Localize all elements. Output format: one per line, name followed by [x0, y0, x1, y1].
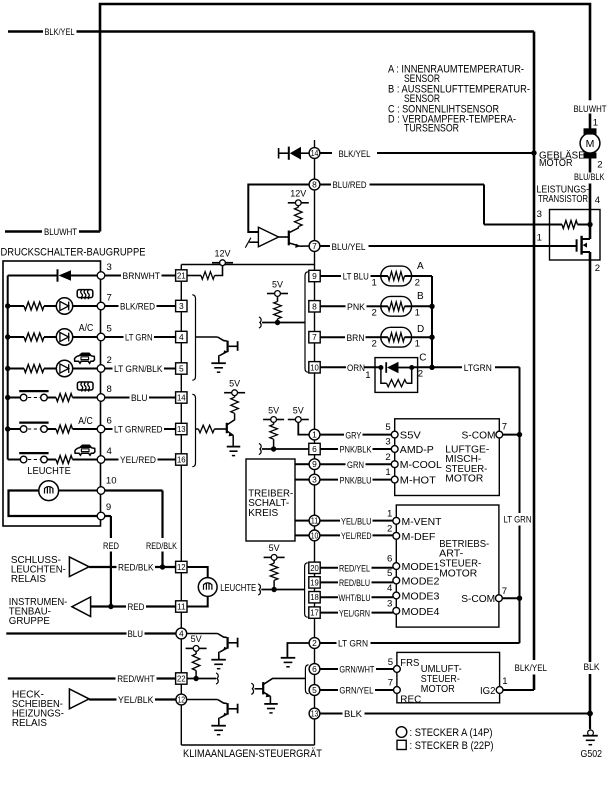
resistor (power transistor base) [562, 221, 578, 229]
svg-text:11: 11 [311, 516, 319, 526]
wire PNK (pin B8) [320, 305, 380, 307]
wire GRN/YEL (pin A5) [320, 689, 394, 691]
svg-text:YEL/BLK: YEL/BLK [118, 695, 154, 705]
label PNK [347, 302, 366, 312]
Luftgemisch-Steuermotor box [395, 419, 500, 496]
supply 12V (pin 21) [212, 249, 233, 266]
wire GRY (pin A1) [320, 434, 391, 436]
svg-text:13: 13 [177, 424, 186, 434]
label RED/WHT [117, 674, 155, 684]
svg-text:BLU: BLU [128, 629, 144, 639]
label KLIMAANLAGEN-STEUERGRÄT [183, 748, 322, 760]
wire Treiber to pin A3 [295, 479, 309, 481]
wire BLU (pin A4) [6, 632, 175, 634]
svg-text:RED/WHT: RED/WHT [117, 674, 155, 684]
label pin 4 (transistor) [595, 195, 601, 206]
bracket B3-B5 [192, 295, 195, 380]
svg-text:4: 4 [179, 629, 184, 639]
svg-text:3: 3 [179, 301, 184, 311]
wire RED/BLK (pin B12) [89, 566, 175, 568]
labels sensor C [365, 353, 426, 381]
wire BRNWHT [105, 275, 176, 277]
switch (row 6) [8, 423, 49, 433]
pin A3 [309, 474, 320, 485]
svg-text:5V: 5V [191, 634, 203, 645]
junctions sensor C terminals [378, 365, 414, 370]
sensor C diode [386, 362, 412, 373]
pin 7 S-COM (Betriebsart) [461, 586, 507, 605]
relay Heckscheibenheizung (triangle) [69, 689, 89, 709]
resistor (row 2) [24, 365, 44, 373]
wire BLK/RED [105, 305, 176, 307]
label BLU/RED [333, 180, 367, 190]
label BLK (pin A13) [344, 709, 363, 719]
svg-text:10: 10 [310, 362, 319, 372]
svg-text:RED/BLK: RED/BLK [118, 563, 154, 573]
svg-text:2: 2 [312, 638, 317, 648]
wire GRN (pin A9) [320, 463, 391, 465]
svg-text:M: M [586, 138, 595, 150]
svg-text:RED/YEL: RED/YEL [339, 564, 370, 574]
label GRN [347, 460, 364, 470]
wire BRN (pin B7) [320, 336, 380, 338]
label pin 3 (transistor) [537, 209, 542, 220]
pin B8 [309, 301, 320, 312]
pin 7 (DS) [97, 292, 112, 310]
junction sensor B [429, 304, 434, 309]
pin A13 [309, 708, 320, 719]
pin A9 [309, 459, 320, 470]
indicator LED row 7 [56, 298, 72, 314]
wire mosfet source to ground run [589, 252, 592, 714]
transistor Q2 (blower control) [279, 227, 310, 248]
svg-text:17: 17 [310, 608, 319, 618]
label LEISTUNGS-TRANSISTOR [537, 184, 590, 205]
wire lamp to pin B11 [187, 596, 208, 606]
svg-text:10: 10 [106, 476, 117, 487]
label Heckscheiben-Heizungs-Relais [12, 689, 64, 729]
svg-text:M-HOT: M-HOT [400, 476, 437, 487]
svg-text:9: 9 [312, 459, 317, 469]
junction lamp node [271, 587, 276, 592]
resistor (Q4 collector) [231, 396, 239, 414]
svg-text:BLU: BLU [131, 393, 148, 403]
wire PNK/BLK (pin B6) [320, 448, 391, 450]
pin 3 MODE4 [387, 598, 440, 617]
svg-text:5: 5 [387, 568, 392, 579]
label RED/BLU [339, 578, 370, 588]
svg-text:12: 12 [177, 562, 186, 572]
wire switch-resistor row 4 [47, 459, 56, 461]
svg-text:M-COOL: M-COOL [400, 460, 442, 471]
pin A14 [309, 148, 320, 159]
sensor A (Innenraumtemp.) [381, 266, 412, 286]
pin 5 MODE2 [387, 568, 440, 587]
ground (pin A2) [281, 658, 296, 667]
svg-text:MOTOR: MOTOR [539, 158, 573, 169]
pin B20 [309, 562, 320, 573]
svg-text:5: 5 [107, 323, 112, 334]
pin B13 [176, 423, 187, 434]
label A/C (row 5) [79, 323, 94, 334]
pin A10 [309, 530, 320, 541]
wire BLK/YEL riser (right) [533, 32, 536, 691]
label Umluft motor [421, 664, 462, 695]
wire Treiber to pin A11 [295, 520, 309, 522]
wire resistor-LED row 2 [44, 368, 56, 370]
svg-text:2: 2 [372, 339, 377, 350]
svg-text:7: 7 [312, 332, 317, 342]
pin 1 M-HOT [385, 467, 436, 486]
svg-text:1: 1 [385, 467, 390, 478]
svg-text:LT GRN/RED: LT GRN/RED [114, 425, 163, 435]
label BLUWHT (blower) [574, 104, 607, 114]
label BLU [131, 393, 148, 403]
wire pin B12 to lamp [187, 567, 208, 578]
svg-text:LEUCHTE: LEUCHTE [27, 466, 71, 477]
svg-text:7: 7 [312, 241, 317, 251]
svg-text:1: 1 [365, 370, 370, 381]
svg-text:7: 7 [502, 586, 507, 597]
svg-text:B: B [417, 291, 424, 302]
svg-text:5: 5 [312, 685, 317, 695]
svg-text:BLK: BLK [584, 662, 601, 672]
resistor (12V pull-up) [295, 206, 303, 227]
resistor (row 7) [24, 302, 44, 310]
wire BLUWHT riser and top run [100, 4, 590, 232]
wire comparator lower input [245, 238, 258, 248]
svg-text:BLU/YEL: BLU/YEL [332, 242, 366, 252]
label YEL/RED [120, 455, 156, 465]
svg-text:4: 4 [387, 583, 393, 594]
pin B5 [176, 363, 187, 374]
svg-text:5: 5 [179, 364, 184, 374]
wire Treiber to pin A10 [295, 534, 309, 536]
svg-text:BLU/RED: BLU/RED [333, 180, 367, 190]
svg-text:21: 21 [177, 271, 186, 281]
pin 9 (DS) [97, 502, 111, 520]
svg-text:5V: 5V [269, 543, 281, 554]
label LT GRN/RED [114, 425, 163, 435]
svg-text:RELAIS: RELAIS [11, 574, 46, 585]
svg-text:KREIS: KREIS [248, 508, 278, 519]
transistor Q7 (pin A12) [187, 700, 238, 735]
label YEL/GRN [339, 608, 370, 618]
resistor (AMD pull-up) [270, 422, 278, 449]
pin A8 [309, 179, 320, 190]
wire IG2 to BLK/YEL riser [503, 689, 534, 691]
svg-text:6: 6 [107, 415, 112, 426]
svg-text:20: 20 [310, 563, 319, 573]
Treiberschaltkreis box [246, 459, 295, 541]
wire switch-resistor row 6 [47, 428, 56, 430]
svg-text:RED/BLU: RED/BLU [339, 578, 370, 588]
junction AMD pull-up [271, 446, 276, 451]
pin 5 (DS) [97, 323, 112, 341]
wire BLK/YEL (pin 14) [320, 152, 534, 154]
svg-text:1: 1 [387, 508, 392, 519]
labels sensor B [372, 291, 425, 319]
pin A6 [309, 664, 320, 675]
junction bus row 5 [5, 334, 10, 339]
transistor Q5 (pin A4) [187, 634, 238, 669]
supply 5V (Q4 pull-up) [224, 379, 245, 396]
label YEL/BLK [118, 695, 154, 705]
svg-text:KLIMAANLAGEN-STEUERGRÄT: KLIMAANLAGEN-STEUERGRÄT [183, 748, 322, 760]
wire blower pin 1 [590, 114, 598, 130]
pin B22 (REDWHT) [176, 673, 187, 684]
svg-text:7: 7 [388, 678, 393, 689]
svg-text:BLUWHT: BLUWHT [44, 227, 77, 237]
svg-text:5: 5 [388, 657, 393, 668]
wire LT GRN riser (S-COM) [519, 367, 521, 643]
wire pin B22 stub [187, 673, 218, 684]
wire RED/BLU (pin B19) [320, 581, 393, 583]
wire RED/WHT (pin B22) [8, 677, 176, 679]
pin A2 [309, 638, 320, 649]
svg-text:TURSENSOR: TURSENSOR [404, 123, 459, 135]
relay Instrumententafel (triangle) [72, 597, 91, 617]
svg-text:MOTOR: MOTOR [439, 568, 477, 579]
sensor C box (Sonnenlichtsensor) [375, 358, 418, 393]
label RED/BLK (riser) [146, 541, 178, 551]
supply 5V (S5V source) [288, 405, 309, 422]
wire resistor to drain node [578, 224, 591, 226]
wire LT GRN/RED [105, 428, 176, 430]
transistor Q6 (Umluft driver) [251, 678, 305, 713]
svg-text:YEL/RED: YEL/RED [341, 531, 372, 541]
pin 3 (DS) [97, 262, 112, 280]
wire resistor-pin row 6 [73, 428, 98, 430]
svg-text:BLK/YEL: BLK/YEL [339, 149, 371, 159]
svg-text:BRN: BRN [347, 333, 365, 343]
svg-text:LT GRN: LT GRN [504, 515, 532, 525]
junction bus row 2 [5, 366, 10, 371]
svg-text:RED/BLK: RED/BLK [146, 541, 178, 551]
svg-text:BRNWHT: BRNWHT [123, 271, 161, 281]
svg-text:1: 1 [312, 430, 317, 440]
wire row 5 [8, 336, 24, 338]
svg-text:14: 14 [177, 393, 186, 403]
svg-text:18: 18 [310, 592, 319, 602]
svg-text:MODE2: MODE2 [402, 577, 440, 588]
pin B21 [176, 270, 187, 281]
junction sensor D [429, 335, 434, 340]
svg-text:BLK/YEL: BLK/YEL [45, 27, 75, 37]
pin B12 (lamp+) [176, 561, 187, 572]
label YEL/BLU [341, 516, 372, 526]
svg-text:AMD-P: AMD-P [400, 445, 434, 456]
svg-text:12: 12 [178, 695, 186, 705]
svg-text:LTGRN: LTGRN [464, 363, 492, 373]
svg-text:DRUCKSCHALTER-BAUGRUPPE: DRUCKSCHALTER-BAUGRUPPE [1, 247, 146, 259]
svg-text:BLU/BLK: BLU/BLK [574, 172, 605, 182]
icon car (row 2) [75, 353, 95, 363]
pin 4 MODE3 [387, 583, 440, 602]
pin B16 [176, 454, 187, 465]
svg-text:1: 1 [537, 233, 542, 244]
svg-text:IG2: IG2 [480, 686, 496, 697]
wire RED riser [105, 516, 111, 607]
svg-text:22: 22 [177, 674, 186, 684]
label GRN/WHT [339, 665, 374, 675]
svg-text:: STECKER A (14P): : STECKER A (14P) [410, 727, 493, 739]
svg-text:5V: 5V [293, 405, 305, 416]
wire switch-resistor row 8 [47, 397, 56, 399]
svg-text:2: 2 [387, 523, 392, 534]
pin 6 (DS) [97, 415, 112, 433]
svg-text:2: 2 [597, 159, 602, 170]
pin 7 REC [388, 678, 422, 706]
wire resistor-LED row 5 [44, 336, 56, 338]
svg-text:19: 19 [310, 577, 319, 587]
wire resistor-LED row 7 [44, 305, 56, 307]
transistor Q4 (pin B13) [227, 413, 241, 455]
svg-text:9: 9 [106, 502, 111, 513]
label BLK [584, 662, 601, 672]
junction bus row 7 [5, 303, 10, 308]
svg-text:5V: 5V [229, 379, 241, 390]
resistor (row 4) [56, 456, 73, 464]
wire lamp node to bracket [258, 584, 304, 595]
svg-text:GRN: GRN [347, 460, 364, 470]
label LT GRN (pin A2) [338, 639, 368, 649]
label LT GRN (riser) [504, 515, 532, 525]
label PNK/BLU [340, 475, 372, 485]
svg-text:PNK/BLU: PNK/BLU [340, 475, 372, 485]
wire BLU/RED (pin 8) [320, 185, 484, 225]
svg-text:PNK: PNK [347, 302, 366, 312]
svg-text:12V: 12V [290, 189, 307, 200]
svg-text:6: 6 [312, 664, 317, 674]
pin A7 [309, 241, 320, 252]
resistor (pin B22) [192, 651, 200, 678]
pin 7 S-COM (Luftge) [462, 421, 508, 441]
pin 3 AMD-P [385, 437, 433, 456]
svg-text:MOTOR: MOTOR [421, 684, 455, 695]
svg-text:16: 16 [177, 455, 186, 465]
pin 2 M-DEF [387, 523, 436, 542]
svg-text:MODE1: MODE1 [402, 562, 440, 573]
wire LED-pin row 7 [73, 305, 98, 307]
svg-text:5V: 5V [268, 405, 280, 416]
label BLU/BLK [574, 172, 605, 182]
pin B6 [309, 443, 320, 454]
svg-text:S5V: S5V [400, 431, 421, 442]
svg-text:: STECKER B (22P): : STECKER B (22P) [410, 740, 494, 752]
junction BLK ground node [587, 711, 593, 717]
label Instrumententafel-Baugruppe [9, 597, 68, 627]
svg-text:2: 2 [107, 355, 112, 366]
wire RED (pin B11) [91, 605, 176, 607]
label BLU (pin A4) [128, 629, 144, 639]
label BLUWHT [44, 227, 77, 237]
label BLK/YEL [45, 27, 75, 37]
label BLK/RED [120, 302, 155, 312]
transistor Q3 (bracket B4) [196, 337, 238, 372]
motor Gebläse (M) [580, 128, 600, 158]
wire blower pin 2 / BLU/BLK [590, 158, 603, 239]
resistor (Q4 base) [196, 425, 227, 433]
pin B18 [309, 592, 320, 603]
svg-text:7: 7 [502, 421, 507, 432]
svg-text:12V: 12V [215, 249, 232, 260]
svg-text:LT GRN: LT GRN [125, 333, 153, 343]
pin B14 [176, 392, 187, 403]
supply 12V (comparator) [288, 189, 309, 206]
labels sensor A [372, 261, 425, 289]
pin A1 [309, 429, 320, 440]
label LEUCHTE (DS) [27, 466, 71, 477]
pin 1 M-VENT [387, 508, 442, 527]
label Treiber-Schalt-Kreis [248, 488, 293, 519]
wire YEL/GRN (pin B17) [320, 612, 393, 614]
svg-text:TRANSISTOR: TRANSISTOR [538, 194, 588, 205]
Druckschalter box [3, 261, 101, 526]
bracket B14-B16 [192, 394, 195, 466]
wire WHT/BLU (pin B18) [320, 596, 393, 598]
svg-text:A/C: A/C [79, 323, 94, 334]
wire S-COM to LT GRN riser [503, 434, 520, 436]
svg-text:9: 9 [312, 271, 317, 281]
label LTGRN [464, 363, 492, 373]
supply 5V (AMD pull-up) [263, 405, 284, 422]
bracket mode outputs [305, 563, 308, 617]
junction pull-up [275, 320, 280, 325]
junction blower feed [531, 150, 536, 155]
labels sensor D [372, 324, 425, 350]
wire YEL/BLK (pin A12) [89, 698, 175, 700]
svg-text:1: 1 [502, 676, 507, 687]
label WHT/BLU [339, 593, 371, 603]
svg-text:8: 8 [312, 180, 317, 190]
pin B17 [309, 607, 320, 618]
wire LT GRN (sensor C) [412, 366, 520, 368]
supply 5V (pin B22) [186, 634, 207, 651]
label LEUCHTE (ECU) [220, 583, 256, 594]
pin A11 [309, 515, 320, 526]
label YEL/RED [341, 531, 372, 541]
sensor D (Verdampfertemp.) [381, 327, 412, 347]
pin 5 FRS [388, 657, 420, 672]
junction RED [108, 604, 113, 609]
label LT GRN [125, 333, 153, 343]
wire GRN/WHT (pin A6) [320, 668, 394, 670]
wire PNK/BLU (pin A3) [320, 479, 391, 481]
svg-text:3: 3 [387, 598, 392, 609]
wire YEL/BLU (pin A11) [320, 520, 393, 522]
comparator U1 [258, 227, 278, 247]
wire LT GRN/BLK [105, 368, 176, 370]
junction bus row 6 [5, 426, 10, 431]
pin A12 (YEL/BLK) [176, 694, 187, 705]
pin 6 MODE1 [387, 554, 440, 573]
switch (row 4) [8, 453, 49, 463]
icon defroster (row 7) [77, 290, 93, 300]
diode (row 3) [8, 269, 98, 281]
indicator LED row 2 [56, 360, 72, 376]
pin 2 M-COOL [385, 452, 442, 471]
svg-text:REC: REC [400, 694, 421, 705]
svg-text:A: A [417, 261, 424, 272]
junction pin B22 pull-up [193, 676, 198, 681]
supply 5V (sensor pull-up) [267, 279, 288, 296]
pin 5 S5V [385, 422, 420, 441]
svg-text:10: 10 [311, 530, 319, 540]
label DRUCKSCHALTER-BAUGRUPPE [1, 247, 146, 259]
svg-text:3: 3 [385, 437, 390, 448]
pin 4 (DS) [97, 446, 112, 464]
